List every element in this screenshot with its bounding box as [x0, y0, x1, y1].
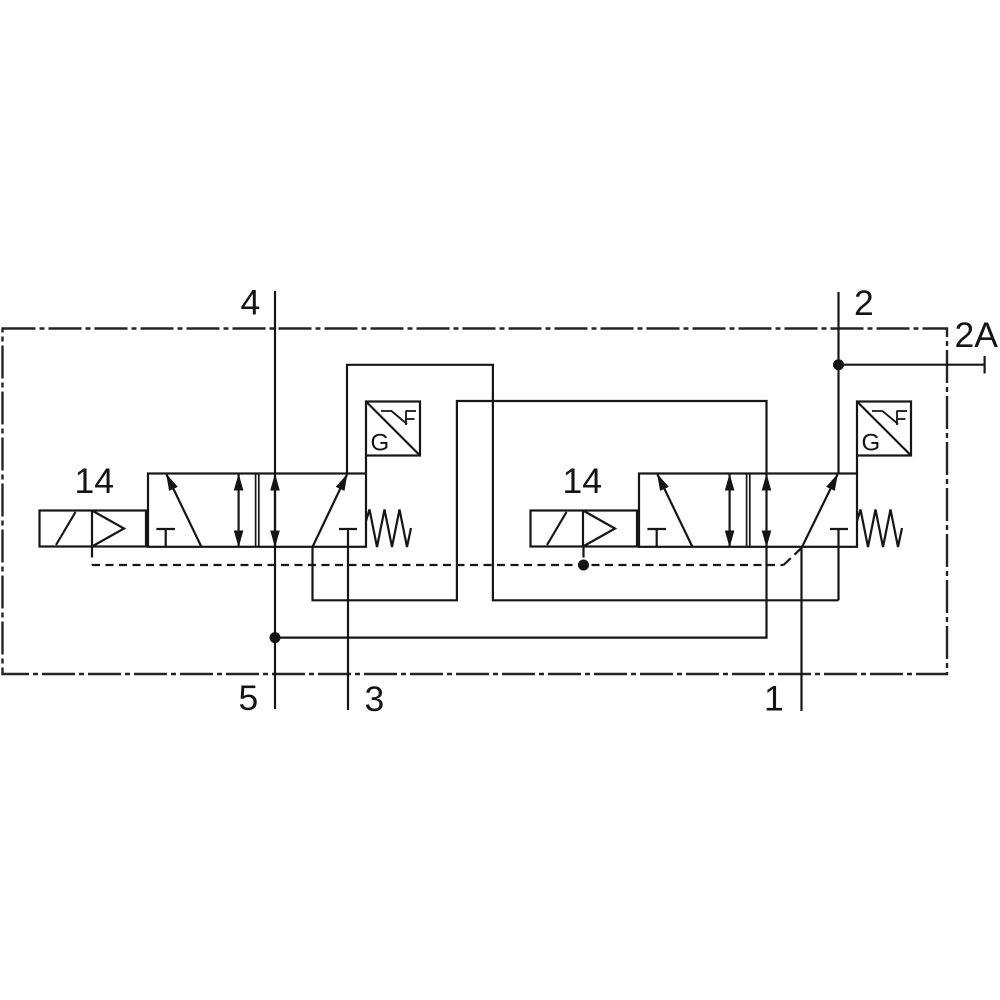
wire loop A: left valve output up over to right valve exhaust [347, 365, 839, 601]
wire to 2A with end tick [839, 364, 985, 366]
port line 4-5 (vertical through left valve) [274, 291, 276, 709]
right manual override symbol [872, 411, 898, 424]
left valve left square flow arrow [167, 475, 202, 548]
right valve left square flow arrow [658, 475, 693, 548]
port line 1 [800, 547, 802, 711]
right valve double arrow 2 (on crossover line) [765, 475, 767, 547]
left valve left square blocked port T [156, 528, 175, 530]
left manual override symbol [381, 411, 407, 424]
right solenoid 14 [531, 511, 638, 547]
svg-text:1: 1 [764, 679, 784, 719]
right valve right square flow arrow [802, 475, 838, 548]
right valve double arrow 1 [728, 475, 730, 547]
left solenoid 14 [40, 511, 147, 547]
svg-text:4: 4 [241, 283, 261, 323]
svg-text:5: 5 [239, 678, 259, 718]
wire: right valve bottom to dot on line 5 [275, 547, 767, 638]
left pilot G box [366, 402, 420, 456]
pilot dashed line from left solenoid to right valve actuator [91, 547, 93, 565]
svg-text:3: 3 [365, 679, 385, 719]
port line 2 [837, 292, 839, 474]
node dot on line 5 [270, 632, 281, 643]
enclosure dash-dot border [3, 329, 948, 675]
port line 3 [347, 529, 349, 710]
svg-text:G: G [862, 430, 881, 457]
right valve left square blocked port T [647, 528, 666, 530]
right pilot G box [857, 402, 911, 456]
left valve return spring [366, 510, 411, 548]
left valve right square flow arrow [313, 475, 348, 548]
right valve right square blocked port T with stem to loop A [830, 528, 848, 530]
left valve double arrow 1 [238, 475, 240, 547]
svg-text:14: 14 [563, 461, 603, 501]
right valve body (two position squares) [639, 474, 857, 547]
right valve return spring [857, 510, 902, 548]
svg-text:2A: 2A [955, 315, 999, 355]
node dot on line 2 [833, 359, 844, 370]
svg-text:14: 14 [75, 461, 115, 501]
left valve body (two position squares) [148, 474, 366, 547]
svg-text:2: 2 [854, 283, 874, 323]
pilot dashed stub from right solenoid [582, 547, 584, 565]
left valve right square blocked port T [339, 528, 357, 530]
wire crossover: left valve bottom to right valve top [313, 401, 767, 600]
left valve double arrow 2 (on line 4-5) [274, 475, 276, 547]
svg-text:G: G [371, 430, 390, 457]
pilot node dot [578, 560, 589, 571]
